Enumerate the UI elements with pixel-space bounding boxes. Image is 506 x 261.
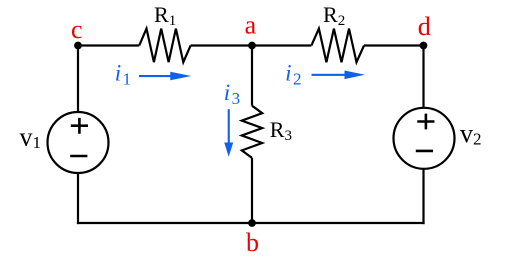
node d — [420, 42, 428, 50]
current i2 arrow — [312, 71, 365, 80]
wire c to R1 — [78, 44, 139, 46]
wire d to v2 — [422, 46, 424, 108]
wire c to v1 — [77, 46, 79, 113]
svg-text:d: d — [418, 12, 431, 41]
svg-text:R1: R1 — [154, 2, 176, 29]
current i1 arrow — [139, 72, 191, 81]
svg-text:v1: v1 — [20, 122, 42, 152]
svg-text:i3: i3 — [224, 80, 240, 108]
voltage source v1 — [48, 112, 109, 173]
svg-text:i2: i2 — [285, 61, 301, 89]
voltage source v2 — [394, 108, 455, 169]
bottom wire b to right corner — [252, 222, 425, 224]
wire bottom-right corner to v2 — [422, 169, 424, 224]
wire a to R3 — [251, 46, 253, 106]
resistor R2 — [311, 29, 364, 63]
current i3 arrow — [224, 109, 233, 157]
node c — [74, 42, 82, 50]
v2 minus sign — [416, 150, 433, 153]
v1 plus sign — [71, 118, 88, 134]
svg-text:i1: i1 — [115, 61, 131, 89]
node a — [248, 42, 256, 50]
bottom wire corner to b — [77, 222, 252, 224]
resistor R1 — [139, 29, 190, 63]
wire v1 to bottom-left corner — [77, 173, 79, 224]
v1 minus sign — [70, 155, 87, 158]
wire R1 to a — [191, 44, 252, 46]
svg-text:R2: R2 — [323, 2, 345, 29]
svg-text:b: b — [246, 228, 259, 257]
wire R2 to d — [364, 44, 424, 46]
node b — [248, 219, 256, 227]
wire R3 to b — [251, 158, 253, 223]
resistor R3 — [242, 106, 262, 158]
svg-text:R3: R3 — [270, 117, 292, 144]
wire a to R2 — [252, 44, 311, 46]
svg-text:a: a — [245, 11, 257, 40]
svg-text:c: c — [71, 15, 83, 44]
svg-text:v2: v2 — [460, 119, 482, 149]
v2 plus sign — [417, 114, 434, 130]
